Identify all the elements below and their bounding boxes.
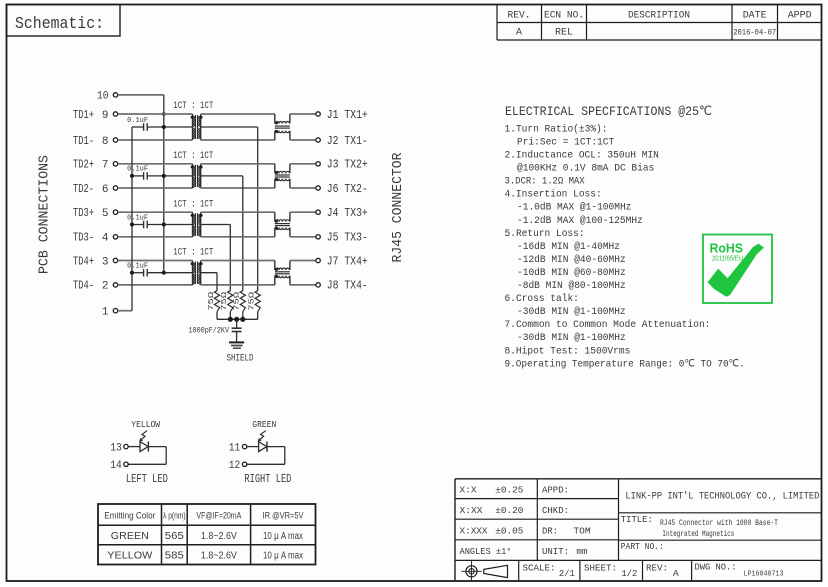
node J2 TX1- bbox=[316, 135, 368, 148]
svg-text:λ p(nm): λ p(nm) bbox=[163, 510, 186, 521]
svg-text:REV:: REV: bbox=[646, 562, 668, 573]
node pin 7 TD2+ bbox=[73, 159, 118, 172]
svg-text:mm: mm bbox=[576, 546, 587, 557]
wire T2 secondary centre tap bbox=[201, 176, 243, 291]
svg-text:SHIELD: SHIELD bbox=[227, 354, 254, 365]
transformer T3 1CT:1CT primary winding bbox=[191, 212, 195, 237]
svg-text:2011/65/EU: 2011/65/EU bbox=[712, 254, 743, 263]
svg-text:VF@IF=20mA: VF@IF=20mA bbox=[196, 510, 241, 521]
capacitor C5 1000pF/2KV bbox=[189, 319, 242, 342]
junction C1 right on pin10 bus bbox=[162, 125, 166, 129]
transformer T4 secondary winding bbox=[199, 261, 203, 285]
svg-text:TD4-: TD4- bbox=[73, 280, 94, 293]
wire pin10 bus vertical bbox=[163, 95, 165, 273]
svg-text:PCB CONNECTIONS: PCB CONNECTIONS bbox=[38, 155, 53, 274]
svg-text:8.Hipot Test: 1500Vrms: 8.Hipot Test: 1500Vrms bbox=[505, 345, 631, 357]
svg-text:J4 TX3+: J4 TX3+ bbox=[327, 207, 368, 220]
svg-text:3.DCR: 1.2Ω MAX: 3.DCR: 1.2Ω MAX bbox=[505, 176, 586, 188]
svg-text:Pri:Sec = 1CT:1CT: Pri:Sec = 1CT:1CT bbox=[517, 136, 614, 148]
svg-text:-1.2dB MAX @100-125MHz: -1.2dB MAX @100-125MHz bbox=[517, 215, 643, 227]
junction pin10 bus on TD1+ bbox=[162, 112, 166, 116]
junction rail R3 bbox=[240, 317, 245, 322]
svg-text:TITLE:: TITLE: bbox=[621, 514, 653, 525]
svg-text:UNIT:: UNIT: bbox=[542, 546, 569, 557]
wire choke L4 bottom to J bbox=[290, 284, 316, 286]
wire T3 secondary top to choke bbox=[201, 211, 275, 213]
diode D right bbox=[247, 442, 267, 452]
svg-text:1000pF/2KV: 1000pF/2KV bbox=[189, 325, 230, 335]
svg-text:IR @VR=5V: IR @VR=5V bbox=[263, 510, 305, 521]
wire T4 secondary centre tap bbox=[201, 273, 217, 291]
node J5 TX3- bbox=[316, 232, 368, 245]
svg-text:8: 8 bbox=[102, 136, 109, 148]
svg-text:1.Turn Ratio(±3%):: 1.Turn Ratio(±3%): bbox=[505, 123, 608, 135]
svg-text:5: 5 bbox=[102, 208, 109, 220]
svg-text:A: A bbox=[516, 27, 522, 38]
svg-text:X:X: X:X bbox=[460, 484, 477, 495]
svg-text:585: 585 bbox=[165, 551, 184, 562]
svg-text:PART NO.:: PART NO.: bbox=[621, 541, 664, 552]
Schematic title box bbox=[7, 5, 121, 37]
svg-text:10: 10 bbox=[97, 91, 109, 103]
svg-text:J7 TX4+: J7 TX4+ bbox=[327, 255, 368, 268]
svg-text:4: 4 bbox=[102, 233, 109, 245]
svg-text:1.8~2.6V: 1.8~2.6V bbox=[201, 551, 237, 562]
svg-text:9: 9 bbox=[102, 110, 109, 122]
junction C4 right on pin10 bus bbox=[162, 271, 166, 275]
svg-text:4.Insertion Loss:: 4.Insertion Loss: bbox=[505, 189, 602, 201]
svg-text:-30dB MIN @1-100MHz: -30dB MIN @1-100MHz bbox=[517, 332, 626, 344]
wire T3 secondary bottom to choke bbox=[201, 236, 275, 238]
svg-text:-30dB MIN @1-100MHz: -30dB MIN @1-100MHz bbox=[517, 306, 626, 318]
svg-text:1CT : 1CT: 1CT : 1CT bbox=[173, 100, 213, 112]
svg-text:-16dB MIN @1-40MHz: -16dB MIN @1-40MHz bbox=[517, 241, 620, 253]
svg-text:±0.20: ±0.20 bbox=[495, 505, 523, 516]
capacitor C4 0.1uF bbox=[127, 263, 192, 277]
transformer T4 core bbox=[195, 262, 197, 284]
wire TD2- to transformer bbox=[118, 187, 193, 189]
ground SHIELD bbox=[227, 342, 254, 364]
svg-text:75Ω: 75Ω bbox=[208, 291, 216, 311]
svg-text:J6 TX2-: J6 TX2- bbox=[327, 183, 368, 196]
common-mode choke L3 bbox=[275, 212, 290, 237]
svg-text:GREEN: GREEN bbox=[252, 419, 276, 430]
svg-text:5.Return Loss:: 5.Return Loss: bbox=[505, 228, 585, 240]
svg-text:TD1-: TD1- bbox=[73, 135, 94, 148]
transformer T2 core bbox=[195, 165, 197, 187]
svg-text:Schematic:: Schematic: bbox=[15, 15, 104, 34]
capacitor C3 0.1uF bbox=[127, 214, 192, 228]
svg-text:RJ45 Connector with 1000 Base-: RJ45 Connector with 1000 Base-T bbox=[660, 518, 778, 528]
transformer T3 secondary winding bbox=[199, 212, 203, 237]
svg-text:-12dB MIN @40-60MHz: -12dB MIN @40-60MHz bbox=[517, 254, 626, 266]
common-mode choke L4 bbox=[275, 261, 290, 285]
transformer T3 core bbox=[195, 213, 197, 236]
svg-text:9.Operating Temperature Range:: 9.Operating Temperature Range: 0℃ TO 70℃… bbox=[505, 358, 745, 370]
svg-text:X:XXX: X:XXX bbox=[460, 525, 488, 536]
label T4 ratio 1CT : 1CT bbox=[173, 247, 213, 259]
LED left YELLOW bbox=[131, 419, 160, 430]
revision table bbox=[497, 5, 822, 41]
svg-text:13: 13 bbox=[110, 442, 122, 454]
label LEFT LED bbox=[126, 473, 168, 486]
wire TD1+ to transformer bbox=[118, 113, 193, 115]
company name bbox=[625, 491, 819, 503]
svg-text:REL: REL bbox=[555, 27, 573, 38]
svg-text:-10dB MIN @60-80MHz: -10dB MIN @60-80MHz bbox=[517, 267, 626, 279]
svg-text:565: 565 bbox=[165, 531, 184, 542]
svg-text:@100KHz 0.1V 8mA DC Bias: @100KHz 0.1V 8mA DC Bias bbox=[517, 163, 654, 175]
svg-text:REV.: REV. bbox=[508, 10, 531, 21]
svg-text:ANGLES ±1°: ANGLES ±1° bbox=[460, 546, 512, 557]
node pin 8 TD1- bbox=[73, 135, 118, 148]
node pin 6 TD2- bbox=[73, 183, 118, 196]
LED characteristics table bbox=[98, 504, 316, 565]
svg-text:1: 1 bbox=[102, 307, 109, 319]
projection symbol bbox=[461, 561, 507, 581]
wire choke L1 top to J bbox=[290, 113, 316, 115]
svg-text:2/1: 2/1 bbox=[559, 568, 575, 579]
node pin 11 bbox=[229, 442, 247, 454]
svg-text:Integrated Magnetics: Integrated Magnetics bbox=[662, 529, 734, 539]
LED right GREEN bbox=[252, 419, 276, 430]
svg-text:2: 2 bbox=[102, 281, 109, 293]
node J4 TX3+ bbox=[316, 207, 368, 220]
approval texts bbox=[542, 484, 591, 556]
node pin 12 bbox=[229, 460, 247, 472]
LED arrow right bbox=[258, 431, 266, 442]
resistor R1 75ohm bbox=[208, 291, 220, 320]
svg-text:RIGHT LED: RIGHT LED bbox=[244, 473, 291, 486]
node J7 TX4+ bbox=[316, 255, 368, 268]
wire T4 secondary bottom to choke bbox=[201, 284, 275, 286]
svg-text:TOM: TOM bbox=[574, 525, 591, 536]
svg-text:1.8~2.6V: 1.8~2.6V bbox=[201, 531, 237, 542]
svg-text:J2 TX1-: J2 TX1- bbox=[327, 135, 368, 148]
svg-text:75Ω: 75Ω bbox=[234, 291, 242, 311]
svg-text:-1.0dB MAX @1-100MHz: -1.0dB MAX @1-100MHz bbox=[517, 202, 631, 214]
svg-text:DATE: DATE bbox=[743, 10, 767, 21]
wire TD4- to transformer bbox=[118, 284, 193, 286]
transformer T4 1CT:1CT primary winding bbox=[191, 261, 195, 285]
junction rail R2 bbox=[228, 317, 233, 322]
wire T4 secondary top to choke bbox=[201, 260, 275, 262]
svg-text:CHKD:: CHKD: bbox=[542, 505, 569, 516]
svg-text:DR:: DR: bbox=[542, 525, 558, 536]
wire TD4+ to transformer bbox=[118, 260, 193, 262]
node J8 TX4- bbox=[316, 280, 368, 293]
svg-text:-8dB MIN @80-100MHz: -8dB MIN @80-100MHz bbox=[517, 280, 626, 292]
svg-text:6.Cross talk:: 6.Cross talk: bbox=[505, 293, 579, 305]
transformer T1 core bbox=[195, 115, 197, 139]
label T2 ratio 1CT : 1CT bbox=[173, 150, 213, 162]
svg-text:1CT : 1CT: 1CT : 1CT bbox=[173, 150, 213, 162]
wire T3 secondary centre tap bbox=[201, 225, 231, 291]
svg-text:14: 14 bbox=[110, 460, 122, 472]
wire choke L4 top to J bbox=[290, 260, 316, 262]
wire pin10 to bus bbox=[118, 94, 164, 96]
wire choke L3 bottom to J bbox=[290, 236, 316, 238]
wire choke L1 bottom to J bbox=[290, 139, 316, 141]
electrical specifications heading bbox=[505, 104, 712, 119]
transformer T2 1CT:1CT primary winding bbox=[191, 164, 195, 188]
svg-text:J8 TX4-: J8 TX4- bbox=[327, 280, 368, 293]
svg-text:2016-04-07: 2016-04-07 bbox=[733, 27, 776, 37]
svg-text:TD3-: TD3- bbox=[73, 232, 94, 245]
svg-text:SCALE:: SCALE: bbox=[523, 562, 556, 573]
junction C2 left on bus bbox=[130, 174, 134, 178]
svg-text:LEFT LED: LEFT LED bbox=[126, 473, 168, 486]
node pin 13 bbox=[110, 442, 128, 454]
LED arrow left bbox=[139, 431, 147, 442]
wire left loop bbox=[128, 447, 166, 465]
svg-text:3: 3 bbox=[102, 256, 109, 268]
node pin 3 TD4+ bbox=[73, 255, 118, 268]
svg-text:±0.25: ±0.25 bbox=[495, 484, 523, 495]
junction C3 left on bus bbox=[130, 222, 134, 226]
wire left bus vertical bbox=[131, 127, 133, 311]
node pin 5 TD3+ bbox=[73, 207, 118, 220]
capacitor C1 0.1uF bbox=[127, 117, 192, 131]
svg-text:2.Inductance OCL: 350uH MIN: 2.Inductance OCL: 350uH MIN bbox=[505, 150, 659, 162]
svg-text:10 μ A max: 10 μ A max bbox=[263, 531, 303, 542]
svg-text:A: A bbox=[673, 568, 679, 579]
svg-text:APPD:: APPD: bbox=[542, 484, 569, 495]
svg-text:6: 6 bbox=[102, 184, 109, 196]
scale sheet rev dwg bbox=[523, 562, 784, 580]
PCB CONNECTIONS label bbox=[38, 155, 53, 274]
svg-text:SHEET:: SHEET: bbox=[584, 562, 617, 573]
node pin 4 TD3- bbox=[73, 232, 118, 245]
svg-text:ECN NO.: ECN NO. bbox=[544, 10, 584, 21]
node J3 TX2+ bbox=[316, 159, 368, 172]
transformer T2 secondary winding bbox=[199, 164, 203, 188]
label T3 ratio 1CT : 1CT bbox=[173, 198, 213, 210]
node J1 TX1+ bbox=[316, 109, 368, 122]
svg-text:0.1uF: 0.1uF bbox=[127, 117, 148, 125]
wire pin1 to left bus bbox=[118, 310, 132, 312]
node pin 14 bbox=[110, 460, 128, 472]
wire T1 secondary top to choke bbox=[201, 113, 275, 115]
resistor R2 75ohm bbox=[221, 291, 233, 320]
label RIGHT LED bbox=[244, 473, 291, 486]
wire right loop bbox=[247, 447, 285, 465]
svg-text:LINK-PP INT'L TECHNOLOGY CO.,: LINK-PP INT'L TECHNOLOGY CO., LIMITED bbox=[625, 491, 819, 503]
svg-text:7.Common to Common Mode Attenu: 7.Common to Common Mode Attenuation: bbox=[505, 319, 711, 331]
svg-text:75Ω: 75Ω bbox=[221, 291, 229, 311]
transformer T1 1CT:1CT primary winding bbox=[191, 114, 195, 140]
node pin 10 bbox=[97, 91, 118, 103]
part no bbox=[621, 541, 664, 552]
wire T2 secondary top to choke bbox=[201, 163, 275, 165]
svg-text:RJ45 CONNECTOR: RJ45 CONNECTOR bbox=[391, 153, 406, 263]
svg-text:TD4+: TD4+ bbox=[73, 255, 94, 268]
resistor R4 75ohm bbox=[249, 291, 261, 320]
wire TD3- to transformer bbox=[118, 236, 193, 238]
junction C3 right on pin10 bus bbox=[162, 222, 166, 226]
svg-text:TD1+: TD1+ bbox=[73, 109, 94, 122]
svg-text:TD3+: TD3+ bbox=[73, 207, 94, 220]
wire resistor rail bbox=[217, 318, 258, 320]
node pin 1 bbox=[102, 307, 118, 319]
svg-text:ELECTRICAL SPECFICATIONS @25℃: ELECTRICAL SPECFICATIONS @25℃ bbox=[505, 104, 712, 119]
svg-text:1CT : 1CT: 1CT : 1CT bbox=[173, 198, 213, 210]
junction rail centre bbox=[234, 317, 239, 322]
RoHS logo bbox=[703, 235, 772, 304]
node pin 9 TD1+ bbox=[73, 109, 118, 122]
wire choke L3 top to J bbox=[290, 211, 316, 213]
tolerance texts bbox=[460, 484, 524, 556]
junction C2 right on pin10 bus bbox=[162, 174, 166, 178]
svg-text:J1 TX1+: J1 TX1+ bbox=[327, 109, 368, 122]
wire TD1- to transformer bbox=[118, 139, 193, 141]
svg-text:1CT : 1CT: 1CT : 1CT bbox=[173, 247, 213, 259]
node pin 2 TD4- bbox=[73, 280, 118, 293]
title text bbox=[621, 514, 778, 539]
svg-text:11: 11 bbox=[229, 442, 241, 454]
resistor R3 75ohm bbox=[234, 291, 246, 320]
svg-text:J5 TX3-: J5 TX3- bbox=[327, 232, 368, 245]
svg-text:X:XX: X:XX bbox=[460, 505, 483, 516]
title block bbox=[455, 479, 822, 581]
svg-text:10 μ A max: 10 μ A max bbox=[263, 551, 303, 562]
svg-text:DWG NO.:: DWG NO.: bbox=[695, 562, 737, 573]
svg-text:YELLOW: YELLOW bbox=[131, 419, 160, 430]
transformer T1 secondary winding bbox=[199, 114, 203, 140]
RJ45 CONNECTOR label bbox=[391, 153, 406, 263]
svg-text:12: 12 bbox=[229, 460, 241, 472]
electrical specifications list bbox=[505, 123, 745, 370]
svg-text:7: 7 bbox=[102, 160, 109, 172]
svg-text:TD2+: TD2+ bbox=[73, 159, 94, 172]
svg-text:YELLOW: YELLOW bbox=[107, 551, 153, 562]
svg-text:TD2-: TD2- bbox=[73, 183, 94, 196]
wire T2 secondary bottom to choke bbox=[201, 187, 275, 189]
svg-text:LP16040713: LP16040713 bbox=[744, 570, 784, 578]
common-mode choke L1 bbox=[275, 114, 290, 140]
svg-text:1/2: 1/2 bbox=[621, 568, 637, 579]
diode D left bbox=[128, 442, 148, 452]
svg-text:0.1uF: 0.1uF bbox=[127, 166, 148, 174]
wire choke L2 bottom to J bbox=[290, 187, 316, 189]
svg-text:J3 TX2+: J3 TX2+ bbox=[327, 159, 368, 172]
svg-text:0.1uF: 0.1uF bbox=[127, 263, 148, 271]
junction C4 left on bus bbox=[130, 271, 134, 275]
svg-text:±0.05: ±0.05 bbox=[495, 525, 523, 536]
wire choke L2 top to J bbox=[290, 163, 316, 165]
node J6 TX2- bbox=[316, 183, 368, 196]
capacitor C2 0.1uF bbox=[127, 166, 192, 180]
svg-text:APPD: APPD bbox=[788, 10, 812, 21]
svg-text:DESCRIPTION: DESCRIPTION bbox=[628, 10, 690, 21]
common-mode choke L2 bbox=[275, 164, 290, 188]
label T1 ratio 1CT : 1CT bbox=[173, 100, 213, 112]
svg-text:Emitting Color: Emitting Color bbox=[104, 510, 155, 521]
svg-text:75Ω: 75Ω bbox=[249, 291, 257, 311]
svg-text:0.1uF: 0.1uF bbox=[127, 214, 148, 222]
wire T1 secondary bottom to choke bbox=[201, 139, 275, 141]
svg-text:GREEN: GREEN bbox=[111, 531, 149, 542]
wire T1 secondary centre tap bbox=[201, 127, 258, 291]
wire TD2+ to transformer bbox=[118, 163, 193, 165]
wire TD3+ to transformer bbox=[118, 211, 193, 213]
